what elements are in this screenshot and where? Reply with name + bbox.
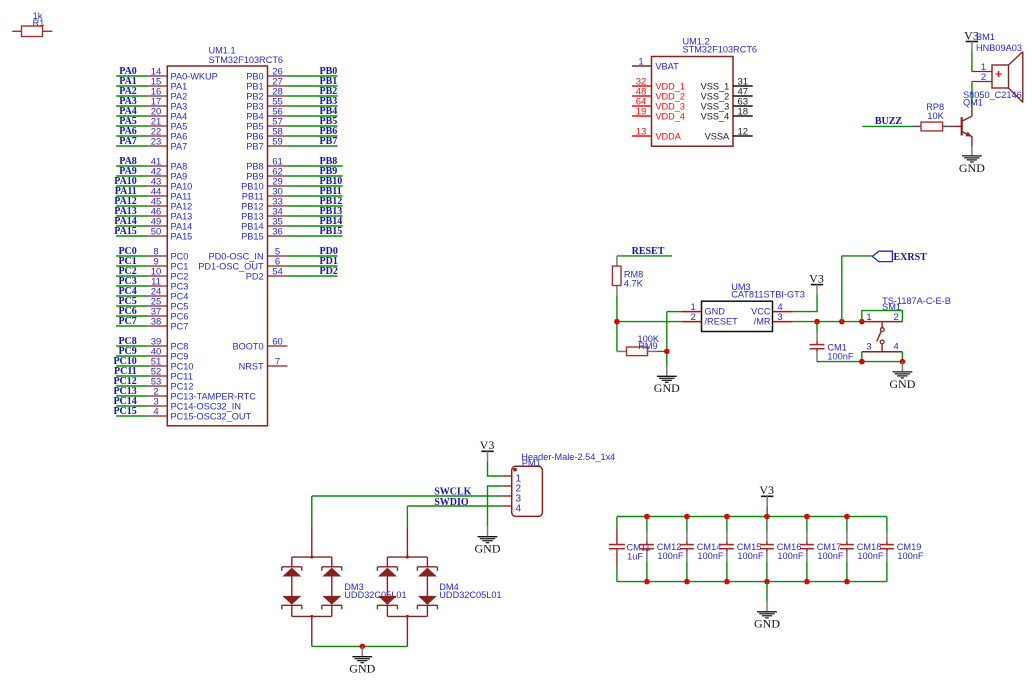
svg-text:RESET: RESET bbox=[632, 246, 665, 257]
IC UM3 CAT811STBI-GT3 bbox=[682, 282, 805, 332]
svg-text:PC11: PC11 bbox=[171, 371, 193, 381]
capacitor CM19 100nF bbox=[880, 517, 924, 582]
UM1.1 pin 57 PB5 / net PB5 bbox=[246, 116, 337, 131]
svg-text:100nF: 100nF bbox=[827, 351, 853, 361]
svg-text:PA1: PA1 bbox=[171, 81, 188, 91]
UM1.2 pin 13 VDDA bbox=[632, 127, 682, 142]
capacitor CM16 100nF bbox=[760, 517, 804, 582]
svg-text:PC10: PC10 bbox=[171, 361, 194, 371]
svg-text:19: 19 bbox=[636, 107, 647, 118]
UM1.1 pin 53 PC12 / net PC12 bbox=[113, 376, 193, 391]
UM1.2 pin 63 VSS_3 bbox=[701, 97, 753, 112]
svg-text:VSS_2: VSS_2 bbox=[701, 91, 730, 101]
UM1.2 pin 32 VDD_1 bbox=[632, 77, 685, 92]
cap bank bottom rail wire bbox=[617, 581, 887, 583]
svg-text:UDD32C05L01: UDD32C05L01 bbox=[439, 590, 501, 600]
svg-text:GND: GND bbox=[705, 307, 726, 317]
ground (buzzer) bbox=[959, 146, 985, 175]
switch SM1 TS-1187A-C-E-B bbox=[862, 296, 951, 362]
svg-text:GND: GND bbox=[475, 542, 501, 556]
capacitor CM18 100nF bbox=[840, 517, 884, 582]
ESD diode array DM4 UDD32C05L01 bbox=[377, 528, 501, 647]
UM1.1 pin 8 PC0 / net PC0 bbox=[116, 246, 188, 261]
resistor RP8 10K bbox=[912, 102, 953, 131]
UM1.1 pin 35 PB14 / net PB14 bbox=[241, 216, 342, 231]
UM1.2 pin 64 VDD_3 bbox=[632, 97, 685, 112]
wire SWCLK down to DM3 bbox=[311, 496, 313, 528]
UM1.1 pin 59 PB7 / net PB7 bbox=[246, 136, 337, 151]
wire PM1 pin 2 to GND bbox=[488, 486, 502, 526]
UM1.1 pin 14 PA0-WKUP / net PA0 bbox=[116, 66, 218, 81]
svg-text:PB11: PB11 bbox=[242, 191, 264, 201]
capacitor CM17 100nF bbox=[800, 517, 844, 582]
svg-text:PB10: PB10 bbox=[241, 181, 263, 191]
svg-text:PA11: PA11 bbox=[171, 191, 192, 201]
UM1.1 pin 5 PD0-OSC_IN / net PD0 bbox=[208, 246, 337, 261]
svg-text:PA4: PA4 bbox=[171, 111, 188, 121]
UM1.1 pin 60 BOOT0 bbox=[232, 337, 287, 352]
svg-text:VSS_1: VSS_1 bbox=[701, 81, 730, 91]
svg-text:3: 3 bbox=[866, 341, 871, 352]
UM1.2 pin 18 VSS_4 bbox=[701, 107, 753, 122]
UM1.1 pin 54 PD2 / net PD2 bbox=[246, 266, 338, 281]
ESD diode array DM3 UDD32C05L01 bbox=[282, 528, 407, 647]
svg-text:60: 60 bbox=[272, 337, 283, 348]
svg-text:54: 54 bbox=[272, 267, 283, 278]
svg-text:59: 59 bbox=[272, 137, 283, 148]
junction at SM1 pin 3 wire bbox=[859, 359, 865, 365]
IC UM1.1 STM32F103RCT6 body bbox=[167, 46, 283, 426]
net label SWDIO with wire bbox=[407, 497, 501, 508]
svg-text:100nF: 100nF bbox=[857, 551, 883, 561]
UM1.2 pin 12 VSSA bbox=[705, 127, 753, 142]
UM1.1 pin 46 PA13 / net PA13 bbox=[114, 206, 192, 221]
svg-text:PD0-OSC_IN: PD0-OSC_IN bbox=[208, 251, 263, 261]
UM1.1 pin 25 PC5 / net PC5 bbox=[116, 296, 188, 311]
power V3 (buzzer) bbox=[964, 28, 979, 51]
UM1.1 pin 42 PA9 / net PA9 bbox=[116, 166, 187, 181]
UM1.1 pin 22 PA6 / net PA6 bbox=[116, 126, 187, 141]
svg-text:1uF: 1uF bbox=[627, 551, 643, 561]
junction at ESD GND bbox=[360, 644, 366, 650]
svg-text:PC6: PC6 bbox=[171, 311, 189, 321]
svg-text:PD2: PD2 bbox=[320, 266, 338, 277]
svg-text:STM32F103RCT6: STM32F103RCT6 bbox=[683, 45, 758, 55]
svg-text:VDDA: VDDA bbox=[655, 131, 681, 141]
svg-text:PB2: PB2 bbox=[246, 91, 263, 101]
svg-text:PB15: PB15 bbox=[241, 231, 263, 241]
svg-text:PB7: PB7 bbox=[246, 141, 263, 151]
svg-text:PC7: PC7 bbox=[118, 316, 136, 327]
UM1.1 pin 44 PA11 / net PA11 bbox=[115, 186, 192, 201]
resistor R1 1k bbox=[12, 11, 52, 36]
net label RESET with wire bbox=[617, 246, 672, 257]
wire CM1 bottom to SM1 bottom bbox=[817, 361, 862, 363]
UM1.1 pin 56 PB4 / net PB4 bbox=[246, 106, 337, 121]
UM1.1 pin 58 PB6 / net PB6 bbox=[246, 126, 337, 141]
UM1.1 pin 28 PB2 / net PB2 bbox=[246, 86, 337, 101]
junction at SM1 pin 1 bbox=[859, 319, 865, 325]
svg-text:PA10: PA10 bbox=[171, 181, 193, 191]
UM1.1 pin 49 PA14 / net PA14 bbox=[114, 216, 192, 231]
UM1.1 pin 38 PC7 / net PC7 bbox=[116, 316, 188, 331]
svg-text:PB15: PB15 bbox=[320, 226, 343, 237]
svg-text:BUZZ: BUZZ bbox=[875, 116, 903, 127]
svg-text:PD1-OSC_OUT: PD1-OSC_OUT bbox=[198, 261, 264, 271]
svg-text:SWDIO: SWDIO bbox=[434, 497, 469, 508]
capacitor CM14 100nF bbox=[680, 517, 724, 582]
svg-text:PA15: PA15 bbox=[171, 231, 193, 241]
svg-text:PA7: PA7 bbox=[119, 136, 137, 147]
svg-text:12: 12 bbox=[738, 127, 749, 138]
ground (header) bbox=[475, 526, 501, 555]
power V3 (reset) bbox=[809, 271, 824, 294]
svg-text:EXRST: EXRST bbox=[894, 252, 928, 263]
power V3 (header) bbox=[480, 438, 495, 461]
UM1.2 pin 48 VDD_2 bbox=[632, 87, 685, 102]
UM1.1 pin 15 PA1 / net PA1 bbox=[116, 76, 187, 91]
junction at SM1 pin 4 / GND bbox=[900, 359, 906, 365]
svg-text:PC14-OSC32_IN: PC14-OSC32_IN bbox=[171, 401, 241, 411]
svg-text:100nF: 100nF bbox=[657, 551, 683, 561]
svg-text:100nF: 100nF bbox=[897, 551, 923, 561]
wire UM3 pin1 to GND bbox=[666, 312, 668, 366]
svg-text:V3: V3 bbox=[759, 483, 774, 497]
svg-text:3: 3 bbox=[777, 312, 782, 323]
svg-text:2: 2 bbox=[894, 312, 899, 323]
svg-text:100nF: 100nF bbox=[737, 551, 763, 561]
svg-text:V3: V3 bbox=[480, 438, 495, 452]
svg-text:50: 50 bbox=[151, 227, 162, 238]
UM1.1 pin 61 PB8 / net PB8 bbox=[246, 156, 342, 171]
UM1.1 pin 52 PC11 / net PC11 bbox=[114, 366, 193, 381]
svg-text:VSSA: VSSA bbox=[705, 131, 730, 141]
svg-text:PC1: PC1 bbox=[171, 261, 189, 271]
svg-text:100nF: 100nF bbox=[697, 551, 723, 561]
svg-text:4: 4 bbox=[894, 341, 899, 352]
header PM1 Header-Male-2.54_1x4 bbox=[502, 452, 616, 516]
svg-text:PC0: PC0 bbox=[171, 251, 189, 261]
svg-text:PB7: PB7 bbox=[320, 136, 338, 147]
svg-text:VDD_4: VDD_4 bbox=[655, 111, 685, 121]
UM1.1 pin 17 PA3 / net PA3 bbox=[116, 96, 187, 111]
svg-text:2: 2 bbox=[691, 312, 696, 323]
svg-text:PC15: PC15 bbox=[113, 406, 136, 417]
svg-text:VDD_1: VDD_1 bbox=[655, 81, 685, 91]
svg-text:PA8: PA8 bbox=[171, 161, 188, 171]
UM1.1 pin 23 PA7 / net PA7 bbox=[116, 136, 187, 151]
wire V3 to buzzer pin 1 bbox=[971, 52, 973, 72]
svg-text:RM9: RM9 bbox=[638, 341, 657, 351]
svg-text:/MR: /MR bbox=[754, 317, 771, 327]
wire UM3 VCC to V3 bbox=[793, 295, 817, 312]
UM1.1 pin 4 PC15-OSC32_OUT / net PC15 bbox=[113, 406, 251, 421]
svg-text:PM1: PM1 bbox=[522, 458, 541, 468]
svg-text:PB6: PB6 bbox=[246, 131, 263, 141]
svg-text:PC3: PC3 bbox=[171, 281, 189, 291]
UM1.1 pin 11 PC3 / net PC3 bbox=[116, 276, 188, 291]
svg-text:4: 4 bbox=[153, 407, 158, 418]
UM1.1 pin 62 PB9 / net PB9 bbox=[246, 166, 342, 181]
svg-text:PB8: PB8 bbox=[246, 161, 263, 171]
wire RM9 to GND junction bbox=[657, 350, 667, 352]
svg-text:PD2: PD2 bbox=[246, 271, 264, 281]
wire V3 to PM1 pin 1 bbox=[488, 461, 502, 476]
svg-text:GND: GND bbox=[754, 617, 780, 631]
svg-text:PC7: PC7 bbox=[171, 321, 189, 331]
svg-text:PA12: PA12 bbox=[171, 201, 193, 211]
ground (switch) bbox=[889, 362, 915, 391]
UM1.1 pin 33 PB12 / net PB12 bbox=[241, 196, 342, 211]
svg-text:23: 23 bbox=[151, 137, 162, 148]
UM1.2 pin 47 VSS_2 bbox=[701, 87, 753, 102]
resistor RM9 100K bbox=[617, 334, 660, 355]
junction at CM1 top bbox=[814, 319, 820, 325]
wire DM3/DM4 bottoms to GND bbox=[312, 645, 408, 647]
svg-text:VDD_2: VDD_2 bbox=[655, 91, 685, 101]
UM1.1 pin 2 PC13-TAMPER-RTC / net PC13 bbox=[113, 386, 256, 401]
UM1.1 pin 16 PA2 / net PA2 bbox=[116, 86, 187, 101]
IC UM1.2 STM32F103RCT6 power body bbox=[652, 37, 758, 147]
svg-text:UDD32C05L01: UDD32C05L01 bbox=[344, 590, 406, 600]
svg-text:GND: GND bbox=[349, 662, 375, 676]
svg-text:1: 1 bbox=[866, 312, 871, 323]
UM1.1 pin 30 PB11 / net PB11 bbox=[242, 186, 343, 201]
junctions on cap bank rails bbox=[644, 514, 850, 585]
UM1.1 pin 50 PA15 / net PA15 bbox=[114, 226, 192, 241]
svg-text:PB9: PB9 bbox=[246, 171, 263, 181]
svg-text:18: 18 bbox=[738, 107, 749, 118]
svg-text:PB13: PB13 bbox=[241, 211, 263, 221]
svg-text:100nF: 100nF bbox=[817, 551, 843, 561]
wire cap bank bottom rail to GND bbox=[766, 582, 768, 602]
svg-text:PA0-WKUP: PA0-WKUP bbox=[171, 71, 218, 81]
UM1.1 pin 34 PB13 / net PB13 bbox=[241, 206, 342, 221]
svg-text:2: 2 bbox=[981, 72, 986, 83]
svg-text:HNB09A03: HNB09A03 bbox=[976, 43, 1022, 53]
UM1.1 pin 20 PA4 / net PA4 bbox=[116, 106, 187, 121]
svg-text:VSS_4: VSS_4 bbox=[701, 111, 730, 121]
svg-text:PA2: PA2 bbox=[171, 91, 188, 101]
capacitor CM11 1uF bbox=[609, 517, 650, 582]
svg-text:PA6: PA6 bbox=[171, 131, 188, 141]
svg-text:PB0: PB0 bbox=[246, 71, 263, 81]
UM1.1 pin 26 PB0 / net PB0 bbox=[246, 66, 337, 81]
UM1.1 pin 24 PC4 / net PC4 bbox=[116, 286, 188, 301]
svg-text:PA9: PA9 bbox=[171, 171, 188, 181]
wire RM8 to junction and RM9 bbox=[616, 296, 618, 351]
svg-text:/RESET: /RESET bbox=[705, 317, 739, 327]
svg-text:PB1: PB1 bbox=[246, 81, 263, 91]
wire junction to UM3 pin 2 bbox=[617, 321, 682, 323]
wire SWDIO down to DM4 bbox=[406, 506, 408, 528]
svg-text:BOOT0: BOOT0 bbox=[232, 341, 263, 351]
buzzer BM1 HNB09A03 bbox=[972, 32, 1023, 102]
svg-text:PC13-TAMPER-RTC: PC13-TAMPER-RTC bbox=[171, 391, 257, 401]
cap bank top rail wire bbox=[617, 516, 887, 518]
svg-text:GND: GND bbox=[889, 377, 915, 391]
ground (ESD) bbox=[349, 646, 375, 675]
svg-text:PB5: PB5 bbox=[246, 121, 263, 131]
net label BUZZ with wire bbox=[862, 116, 911, 127]
UM1.2 pin 19 VDD_4 bbox=[632, 107, 685, 122]
svg-text:PC2: PC2 bbox=[171, 271, 189, 281]
svg-text:PA14: PA14 bbox=[171, 221, 193, 231]
svg-text:V3: V3 bbox=[809, 271, 824, 285]
net label SWCLK with wire bbox=[312, 487, 502, 498]
svg-text:PC9: PC9 bbox=[171, 351, 189, 361]
svg-text:PC4: PC4 bbox=[171, 291, 189, 301]
svg-text:PB12: PB12 bbox=[241, 201, 263, 211]
svg-text:PB3: PB3 bbox=[246, 101, 263, 111]
power V3 (cap bank) bbox=[759, 483, 774, 506]
svg-text:10K: 10K bbox=[927, 111, 944, 121]
capacitor CM15 100nF bbox=[720, 517, 764, 582]
svg-text:PC12: PC12 bbox=[171, 381, 194, 391]
UM1.1 pin 9 PC1 / net PC1 bbox=[116, 256, 188, 271]
svg-text:PC8: PC8 bbox=[171, 341, 189, 351]
UM1.1 pin 36 PB15 / net PB15 bbox=[241, 226, 342, 241]
svg-text:PB4: PB4 bbox=[246, 111, 263, 121]
UM1.1 pin 55 PB3 / net PB3 bbox=[246, 96, 337, 111]
junction at RM9 right bbox=[664, 349, 670, 355]
svg-text:BM1: BM1 bbox=[976, 32, 995, 42]
ground (reset divider) bbox=[654, 366, 680, 395]
UM1.2 pin 1 VBAT bbox=[632, 57, 679, 72]
svg-text:R1: R1 bbox=[33, 18, 45, 28]
svg-text:NRST: NRST bbox=[239, 361, 264, 371]
svg-text:PA15: PA15 bbox=[114, 226, 137, 237]
UM1.1 pin 29 PB10 / net PB10 bbox=[241, 176, 342, 191]
svg-text:PA5: PA5 bbox=[171, 121, 188, 131]
svg-text:4: 4 bbox=[516, 503, 522, 514]
transistor QM1 S8050_C2146 bbox=[953, 90, 1022, 147]
svg-text:PA3: PA3 bbox=[171, 101, 188, 111]
svg-text:PC5: PC5 bbox=[171, 301, 189, 311]
svg-text:PA7: PA7 bbox=[171, 141, 188, 151]
UM1.1 pin 45 PA12 / net PA12 bbox=[114, 196, 192, 211]
wire V3 to cap bank top rail bbox=[766, 506, 768, 516]
svg-text:VDD_3: VDD_3 bbox=[655, 101, 685, 111]
svg-text:36: 36 bbox=[272, 227, 283, 238]
UM1.1 pin 41 PA8 / net PA8 bbox=[116, 156, 187, 171]
UM1.1 pin 27 PB1 / net PB1 bbox=[246, 76, 337, 91]
junction at EXRST riser bbox=[839, 319, 845, 325]
UM1.1 pin 39 PC8 / net PC8 bbox=[116, 336, 188, 351]
UM1.1 pin 6 PD1-OSC_OUT / net PD1 bbox=[198, 256, 338, 271]
ground (cap bank) bbox=[754, 602, 780, 631]
svg-text:4.7K: 4.7K bbox=[624, 279, 644, 289]
wire UM3 /MR to switch bbox=[793, 321, 862, 323]
svg-text:VBAT: VBAT bbox=[655, 61, 679, 71]
svg-text:CAT811STBI-GT3: CAT811STBI-GT3 bbox=[731, 290, 805, 300]
svg-text:7: 7 bbox=[275, 357, 280, 368]
svg-text:STM32F103RCT6: STM32F103RCT6 bbox=[209, 55, 284, 65]
UM1.1 pin 51 PC10 / net PC10 bbox=[113, 356, 193, 371]
svg-text:PB14: PB14 bbox=[241, 221, 263, 231]
svg-text:PA13: PA13 bbox=[171, 211, 193, 221]
svg-text:VSS_3: VSS_3 bbox=[701, 101, 730, 111]
wire to UM3 pin 1 bbox=[667, 311, 682, 313]
svg-text:QM1: QM1 bbox=[963, 98, 983, 108]
svg-text:VCC: VCC bbox=[751, 307, 771, 317]
wire buzzer pin 2 to QM1 collector bbox=[971, 82, 973, 107]
UM1.2 pin 31 VSS_1 bbox=[701, 77, 753, 92]
svg-text:GND: GND bbox=[959, 161, 985, 175]
UM1.1 pin 40 PC9 / net PC9 bbox=[116, 346, 188, 361]
UM1.1 pin 43 PA10 / net PA10 bbox=[114, 176, 192, 191]
UM1.1 pin 10 PC2 / net PC2 bbox=[116, 266, 188, 281]
net flag EXRST with wire bbox=[842, 251, 927, 321]
svg-text:PC15-OSC32_OUT: PC15-OSC32_OUT bbox=[171, 411, 252, 421]
svg-text:100nF: 100nF bbox=[777, 551, 803, 561]
UM1.1 pin 3 PC14-OSC32_IN / net PC14 bbox=[113, 396, 241, 411]
UM1.1 pin 7 NRST bbox=[239, 357, 288, 372]
junction at RM8 bottom bbox=[614, 319, 620, 325]
capacitor CM12 100nF bbox=[640, 517, 684, 582]
svg-text:GND: GND bbox=[654, 381, 680, 395]
svg-text:38: 38 bbox=[151, 317, 162, 328]
UM1.1 pin 37 PC6 / net PC6 bbox=[116, 306, 188, 321]
capacitor CM1 100nF bbox=[810, 322, 854, 362]
UM1.1 pin 21 PA5 / net PA5 bbox=[116, 116, 187, 131]
svg-text:13: 13 bbox=[636, 127, 647, 138]
resistor RM8 4.7K bbox=[612, 256, 643, 296]
svg-text:1: 1 bbox=[638, 57, 643, 68]
